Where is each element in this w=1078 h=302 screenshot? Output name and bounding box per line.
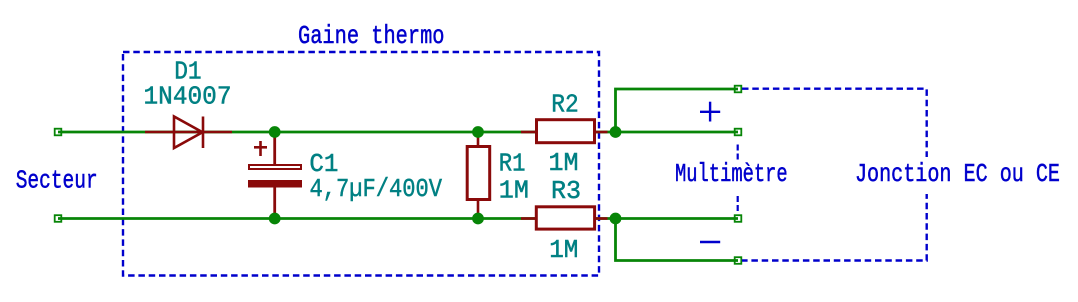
junction top cap <box>269 126 281 138</box>
svg-text:Multimètre: Multimètre <box>675 159 788 189</box>
open-end square left top <box>55 129 62 136</box>
svg-text:Jonction EC ou CE: Jonction EC ou CE <box>855 159 1060 189</box>
capacitor C1 <box>248 132 302 219</box>
resistor R2 <box>521 120 608 143</box>
wire bottom-right down <box>616 219 739 261</box>
minus sign <box>700 241 720 244</box>
svg-text:1M: 1M <box>549 235 578 265</box>
wire top-right up <box>616 89 739 132</box>
open-end square right 3 <box>735 215 742 222</box>
open-end square left bottom <box>55 215 62 222</box>
plus sign <box>700 102 720 122</box>
multimeter dashed link <box>737 145 739 214</box>
wire top <box>58 131 738 134</box>
jonction box outline <box>742 89 927 261</box>
diode D1 <box>145 117 232 149</box>
svg-text:1M: 1M <box>549 148 579 178</box>
junction bottom cap <box>269 213 281 225</box>
svg-text:1N4007: 1N4007 <box>144 81 232 111</box>
svg-text:R1: R1 <box>499 149 526 179</box>
resistor R1 <box>467 132 490 219</box>
svg-text:4,7µF/400V: 4,7µF/400V <box>310 174 443 204</box>
svg-text:Gaine thermo: Gaine thermo <box>298 21 445 51</box>
open-end square right 2 <box>735 129 742 136</box>
svg-text:R3: R3 <box>551 176 581 206</box>
svg-text:1M: 1M <box>499 176 529 206</box>
junction top right <box>610 126 622 138</box>
svg-text:Secteur: Secteur <box>16 166 98 196</box>
junction top R1 <box>472 126 484 138</box>
open-end square right 4 <box>735 257 742 264</box>
svg-text:R2: R2 <box>551 90 578 120</box>
resistor R3 <box>521 207 608 229</box>
junction bottom R1 <box>472 213 484 225</box>
sheet outline Gaine thermo <box>123 52 599 276</box>
junction bottom right <box>610 213 622 225</box>
wire bottom <box>58 217 738 220</box>
label Jonction EC ou CE backing <box>852 157 1063 194</box>
open-end square right 1 <box>735 86 742 93</box>
